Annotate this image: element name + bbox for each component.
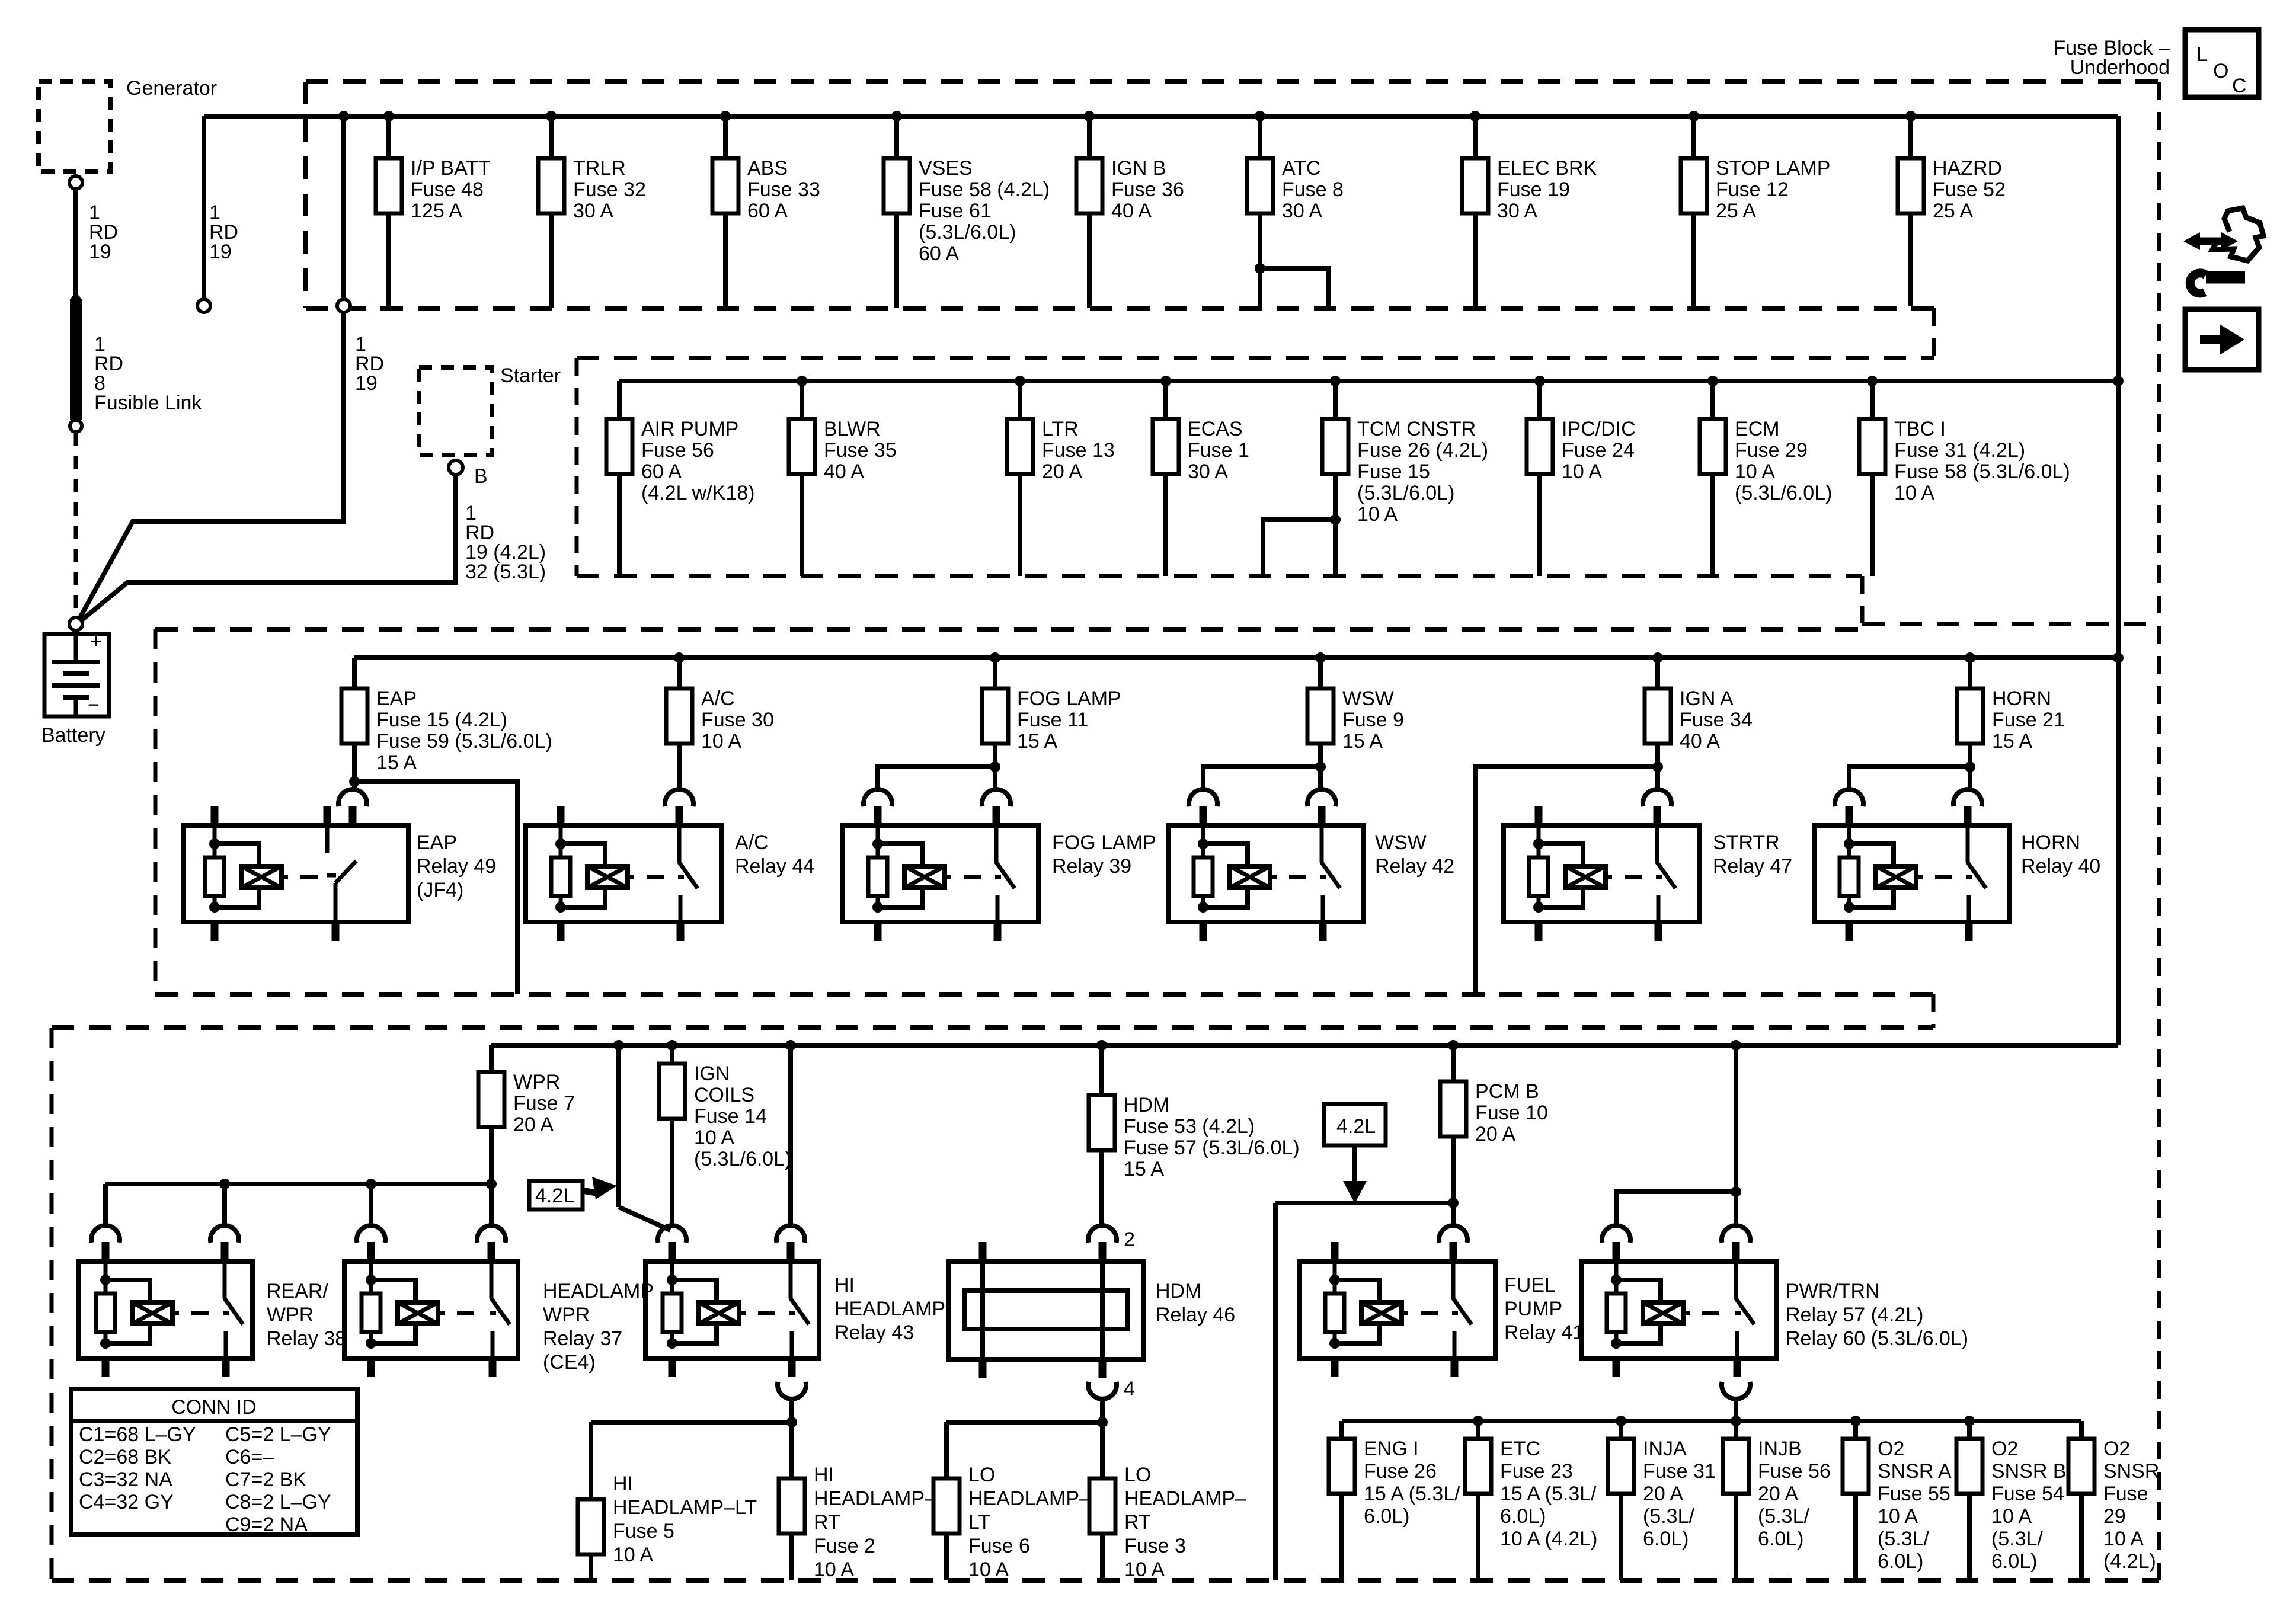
svg-text:10 A: 10 A: [694, 1126, 734, 1149]
svg-text:FOG LAMP: FOG LAMP: [1052, 831, 1156, 854]
svg-text:20 A: 20 A: [1643, 1483, 1683, 1505]
svg-text:4.2L: 4.2L: [535, 1185, 574, 1207]
svg-text:HORN: HORN: [1992, 687, 2051, 710]
svg-text:15 A: 15 A: [1124, 1158, 1164, 1180]
svg-text:SNSR A: SNSR A: [1878, 1460, 1952, 1483]
svg-text:6.0L): 6.0L): [1643, 1528, 1689, 1550]
svg-text:Fuse 8: Fuse 8: [1282, 178, 1344, 201]
svg-text:SNSR B: SNSR B: [1991, 1460, 2067, 1483]
svg-text:Fuse 15 (4.2L): Fuse 15 (4.2L): [376, 709, 507, 731]
svg-text:TCM CNSTR: TCM CNSTR: [1357, 418, 1476, 440]
svg-text:Relay 46: Relay 46: [1156, 1304, 1235, 1326]
svg-text:EAP: EAP: [376, 687, 417, 710]
svg-text:FUEL: FUEL: [1504, 1274, 1556, 1297]
svg-text:10 A (4.2L): 10 A (4.2L): [1500, 1528, 1597, 1550]
svg-text:COILS: COILS: [694, 1084, 754, 1106]
svg-text:30 A: 30 A: [1188, 460, 1228, 483]
svg-text:Fuse 34: Fuse 34: [1680, 709, 1753, 731]
svg-text:Fuse 29: Fuse 29: [1735, 439, 1808, 462]
svg-text:PCM B: PCM B: [1475, 1080, 1539, 1103]
svg-text:10 A: 10 A: [701, 730, 741, 753]
svg-text:REAR/: REAR/: [267, 1280, 328, 1302]
svg-text:20 A: 20 A: [513, 1113, 554, 1136]
svg-text:BLWR: BLWR: [824, 418, 881, 440]
svg-text:INJA: INJA: [1643, 1438, 1687, 1460]
svg-text:125 A: 125 A: [411, 200, 462, 222]
svg-text:6.0L): 6.0L): [1500, 1505, 1546, 1528]
svg-text:20 A: 20 A: [1475, 1123, 1515, 1145]
svg-text:Fuse 36: Fuse 36: [1111, 178, 1184, 201]
svg-text:Fuse 61: Fuse 61: [919, 200, 992, 222]
svg-text:WPR: WPR: [543, 1304, 590, 1326]
svg-text:Fuse 58 (4.2L): Fuse 58 (4.2L): [919, 178, 1050, 201]
svg-text:HEADLAMP: HEADLAMP: [543, 1280, 654, 1302]
svg-text:Relay 57 (4.2L): Relay 57 (4.2L): [1786, 1304, 1923, 1326]
svg-text:(5.3L/: (5.3L/: [1878, 1528, 1929, 1550]
svg-text:15 A: 15 A: [1017, 730, 1057, 753]
svg-text:C1=68 L–GY: C1=68 L–GY: [79, 1423, 196, 1446]
svg-text:10 A: 10 A: [613, 1544, 653, 1566]
svg-text:Fuse 30: Fuse 30: [701, 709, 774, 731]
svg-text:Relay 42: Relay 42: [1375, 855, 1454, 878]
svg-text:ELEC BRK: ELEC BRK: [1497, 157, 1597, 180]
svg-text:Fuse 9: Fuse 9: [1342, 709, 1404, 731]
svg-text:A/C: A/C: [735, 831, 769, 854]
svg-text:WPR: WPR: [513, 1071, 560, 1093]
svg-text:O2: O2: [1878, 1438, 1904, 1460]
svg-text:Fuse 23: Fuse 23: [1500, 1460, 1573, 1483]
svg-text:Fuse 7: Fuse 7: [513, 1092, 575, 1115]
svg-text:RT: RT: [1124, 1511, 1151, 1534]
svg-text:Generator: Generator: [126, 77, 217, 100]
svg-text:C6=–: C6=–: [225, 1446, 274, 1468]
svg-text:(5.3L/6.0L): (5.3L/6.0L): [694, 1148, 791, 1170]
svg-text:Fuse 3: Fuse 3: [1124, 1535, 1186, 1557]
svg-text:IPC/DIC: IPC/DIC: [1562, 418, 1636, 440]
svg-text:Fuse 31: Fuse 31: [1643, 1460, 1716, 1483]
svg-text:C5=2 L–GY: C5=2 L–GY: [225, 1423, 331, 1446]
svg-text:10 A: 10 A: [814, 1558, 854, 1581]
svg-text:C3=32 NA: C3=32 NA: [79, 1468, 172, 1491]
svg-text:A/C: A/C: [701, 687, 735, 710]
svg-text:ETC: ETC: [1500, 1438, 1540, 1460]
svg-text:Fuse 21: Fuse 21: [1992, 709, 2065, 731]
svg-text:VSES: VSES: [919, 157, 973, 180]
svg-text:SNSR: SNSR: [2103, 1460, 2159, 1483]
svg-text:INJB: INJB: [1758, 1438, 1802, 1460]
svg-text:6.0L): 6.0L): [1758, 1528, 1804, 1550]
svg-text:Fuse 32: Fuse 32: [573, 178, 646, 201]
svg-text:LT: LT: [968, 1511, 990, 1534]
svg-text:Relay 38: Relay 38: [267, 1327, 346, 1350]
svg-text:Fuse 55: Fuse 55: [1878, 1483, 1950, 1505]
svg-text:IGN: IGN: [694, 1062, 730, 1085]
svg-text:EAP: EAP: [417, 831, 457, 854]
svg-text:4.2L: 4.2L: [1336, 1115, 1376, 1138]
svg-text:(5.3L/: (5.3L/: [1758, 1505, 1809, 1528]
svg-text:40 A: 40 A: [824, 460, 864, 483]
svg-text:(5.3L/6.0L): (5.3L/6.0L): [919, 221, 1016, 244]
svg-text:HEADLAMP–: HEADLAMP–: [814, 1487, 936, 1510]
svg-text:LTR: LTR: [1042, 418, 1079, 440]
svg-text:HI: HI: [834, 1274, 855, 1297]
svg-text:25 A: 25 A: [1716, 200, 1756, 222]
svg-text:Fuse 5: Fuse 5: [613, 1520, 674, 1542]
svg-text:Fuse 56: Fuse 56: [641, 439, 714, 462]
svg-text:6.0L): 6.0L): [1991, 1550, 2038, 1573]
svg-text:WSW: WSW: [1375, 831, 1427, 854]
svg-text:L: L: [2196, 43, 2208, 66]
svg-text:HEADLAMP–LT: HEADLAMP–LT: [613, 1496, 757, 1519]
svg-text:PWR/TRN: PWR/TRN: [1786, 1280, 1880, 1302]
svg-text:HAZRD: HAZRD: [1933, 157, 2002, 180]
svg-text:(5.3L/: (5.3L/: [1643, 1505, 1694, 1528]
svg-text:Fuse 24: Fuse 24: [1562, 439, 1635, 462]
svg-text:LO: LO: [1124, 1464, 1151, 1486]
svg-text:2: 2: [1124, 1228, 1135, 1251]
svg-text:15 A (5.3L/: 15 A (5.3L/: [1364, 1483, 1460, 1505]
svg-text:30 A: 30 A: [573, 200, 613, 222]
svg-text:LO: LO: [968, 1464, 995, 1486]
svg-text:−: −: [88, 694, 100, 716]
svg-text:Fuse 33: Fuse 33: [747, 178, 820, 201]
svg-text:10 A: 10 A: [1991, 1505, 2032, 1528]
svg-text:6.0L): 6.0L): [1364, 1505, 1410, 1528]
svg-text:C2=68 BK: C2=68 BK: [79, 1446, 171, 1468]
svg-text:B: B: [474, 465, 488, 488]
svg-text:Fuse 10: Fuse 10: [1475, 1102, 1548, 1124]
svg-text:10 A: 10 A: [1562, 460, 1602, 483]
svg-text:ABS: ABS: [747, 157, 788, 180]
svg-text:Fuse: Fuse: [2103, 1483, 2148, 1505]
svg-text:RT: RT: [814, 1511, 840, 1534]
svg-text:60 A: 60 A: [641, 460, 682, 483]
svg-text:Relay 39: Relay 39: [1052, 855, 1131, 878]
svg-text:4: 4: [1124, 1378, 1135, 1400]
svg-text:C4=32 GY: C4=32 GY: [79, 1491, 174, 1513]
svg-text:15 A (5.3L/: 15 A (5.3L/: [1500, 1483, 1597, 1505]
svg-text:Relay 49: Relay 49: [417, 855, 496, 878]
svg-text:Fuse 57 (5.3L/6.0L): Fuse 57 (5.3L/6.0L): [1124, 1137, 1300, 1159]
svg-text:HEADLAMP–: HEADLAMP–: [968, 1487, 1091, 1510]
svg-text:15 A: 15 A: [1992, 730, 2032, 753]
svg-text:19: 19: [355, 372, 378, 395]
svg-text:(JF4): (JF4): [417, 879, 463, 901]
svg-text:Relay 40: Relay 40: [2021, 855, 2100, 878]
svg-text:HI: HI: [613, 1473, 633, 1495]
svg-text:Fuse 2: Fuse 2: [814, 1535, 875, 1557]
svg-text:STRTR: STRTR: [1713, 831, 1780, 854]
svg-text:40 A: 40 A: [1680, 730, 1720, 753]
svg-text:I/P BATT: I/P BATT: [411, 157, 491, 180]
svg-text:FOG LAMP: FOG LAMP: [1017, 687, 1121, 710]
svg-text:19: 19: [89, 241, 111, 263]
svg-text:60 A: 60 A: [747, 200, 788, 222]
svg-text:Relay 47: Relay 47: [1713, 855, 1792, 878]
svg-text:Relay 37: Relay 37: [543, 1327, 622, 1350]
svg-text:Fuse 48: Fuse 48: [411, 178, 484, 201]
svg-text:ENG I: ENG I: [1364, 1438, 1419, 1460]
svg-text:Relay 44: Relay 44: [735, 855, 814, 878]
svg-text:(4.2L): (4.2L): [2103, 1550, 2156, 1573]
svg-text:ATC: ATC: [1282, 157, 1320, 180]
svg-text:(CE4): (CE4): [543, 1351, 596, 1374]
svg-text:6.0L): 6.0L): [1878, 1550, 1924, 1573]
svg-text:Fuse 13: Fuse 13: [1042, 439, 1115, 462]
svg-text:Fuse 12: Fuse 12: [1716, 178, 1789, 201]
svg-text:20 A: 20 A: [1042, 460, 1082, 483]
svg-text:10 A: 10 A: [968, 1558, 1009, 1581]
svg-text:30 A: 30 A: [1497, 200, 1537, 222]
svg-text:Fuse 53 (4.2L): Fuse 53 (4.2L): [1124, 1115, 1255, 1138]
svg-text:(5.3L/6.0L): (5.3L/6.0L): [1357, 482, 1454, 504]
svg-text:Relay 60 (5.3L/6.0L): Relay 60 (5.3L/6.0L): [1786, 1327, 1968, 1350]
svg-text:Fuse 11: Fuse 11: [1017, 709, 1088, 731]
svg-text:Fuse 59 (5.3L/6.0L): Fuse 59 (5.3L/6.0L): [376, 730, 552, 753]
svg-text:WSW: WSW: [1342, 687, 1394, 710]
svg-text:C: C: [2232, 75, 2247, 97]
svg-text:TRLR: TRLR: [573, 157, 626, 180]
svg-text:25 A: 25 A: [1933, 200, 1973, 222]
svg-text:HDM: HDM: [1124, 1094, 1169, 1116]
svg-text:Fuse 52: Fuse 52: [1933, 178, 2006, 201]
svg-text:HORN: HORN: [2021, 831, 2080, 854]
svg-text:15 A: 15 A: [1342, 730, 1383, 753]
svg-text:Fuse 26 (4.2L): Fuse 26 (4.2L): [1357, 439, 1488, 462]
svg-text:HDM: HDM: [1156, 1280, 1201, 1302]
svg-text:Fuse 35: Fuse 35: [824, 439, 897, 462]
svg-text:30 A: 30 A: [1282, 200, 1322, 222]
svg-text:Fuse 1: Fuse 1: [1188, 439, 1249, 462]
svg-text:C9=2 NA: C9=2 NA: [225, 1513, 308, 1536]
svg-text:STOP LAMP: STOP LAMP: [1716, 157, 1830, 180]
svg-text:ECM: ECM: [1735, 418, 1780, 440]
svg-text:ECAS: ECAS: [1188, 418, 1243, 440]
svg-text:29: 29: [2103, 1505, 2126, 1528]
svg-text:Underhood: Underhood: [2070, 56, 2170, 79]
svg-text:AIR PUMP: AIR PUMP: [641, 418, 738, 440]
svg-text:Relay 41: Relay 41: [1504, 1321, 1584, 1344]
svg-text:HI: HI: [814, 1464, 834, 1486]
svg-text:IGN B: IGN B: [1111, 157, 1166, 180]
svg-text:Fuse 58 (5.3L/6.0L): Fuse 58 (5.3L/6.0L): [1894, 460, 2070, 483]
svg-text:Fuse 31 (4.2L): Fuse 31 (4.2L): [1894, 439, 2025, 462]
svg-text:Fuse 54: Fuse 54: [1991, 1483, 2064, 1505]
svg-text:Starter: Starter: [500, 364, 561, 387]
svg-text:Fuse 26: Fuse 26: [1364, 1460, 1437, 1483]
svg-text:IGN A: IGN A: [1680, 687, 1734, 710]
svg-text:19: 19: [209, 241, 232, 263]
svg-text:HEADLAMP–: HEADLAMP–: [1124, 1487, 1246, 1510]
svg-text:Battery: Battery: [41, 724, 105, 747]
svg-text:TBC I: TBC I: [1894, 418, 1946, 440]
svg-text:10 A: 10 A: [1735, 460, 1775, 483]
svg-text:10 A: 10 A: [1357, 503, 1398, 526]
svg-text:CONN ID: CONN ID: [171, 1396, 257, 1419]
svg-text:HEADLAMP: HEADLAMP: [834, 1298, 945, 1320]
svg-text:O: O: [2213, 60, 2228, 82]
svg-text:10 A: 10 A: [1894, 482, 1934, 504]
svg-text:O2: O2: [2103, 1438, 2130, 1460]
svg-text:10 A: 10 A: [1124, 1558, 1165, 1581]
svg-text:(5.3L/6.0L): (5.3L/6.0L): [1735, 482, 1832, 504]
svg-text:PUMP: PUMP: [1504, 1298, 1562, 1320]
svg-text:Fuse 14: Fuse 14: [694, 1105, 767, 1128]
svg-text:32 (5.3L): 32 (5.3L): [465, 561, 546, 583]
svg-text:15 A: 15 A: [376, 751, 417, 774]
svg-text:+: +: [90, 630, 102, 653]
svg-text:Fusible Link: Fusible Link: [94, 392, 202, 414]
svg-text:Fuse 56: Fuse 56: [1758, 1460, 1831, 1483]
svg-text:C8=2 L–GY: C8=2 L–GY: [225, 1491, 331, 1513]
svg-text:Fuse 19: Fuse 19: [1497, 178, 1570, 201]
svg-text:10 A: 10 A: [1878, 1505, 1918, 1528]
svg-text:10 A: 10 A: [2103, 1528, 2144, 1550]
svg-text:WPR: WPR: [267, 1304, 314, 1326]
svg-text:Fuse 15: Fuse 15: [1357, 460, 1430, 483]
svg-text:60 A: 60 A: [919, 242, 959, 265]
svg-text:20 A: 20 A: [1758, 1483, 1798, 1505]
svg-text:40 A: 40 A: [1111, 200, 1152, 222]
svg-text:C7=2 BK: C7=2 BK: [225, 1468, 306, 1491]
svg-text:O2: O2: [1991, 1438, 2018, 1460]
svg-text:Relay 43: Relay 43: [834, 1321, 914, 1344]
svg-text:(5.3L/: (5.3L/: [1991, 1528, 2043, 1550]
svg-text:(4.2L w/K18): (4.2L w/K18): [641, 482, 755, 504]
svg-text:Fuse 6: Fuse 6: [968, 1535, 1030, 1557]
